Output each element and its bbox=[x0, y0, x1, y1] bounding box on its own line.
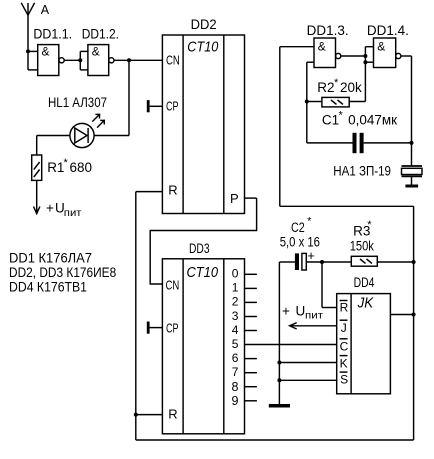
svg-text:&: & bbox=[318, 40, 326, 54]
svg-text:7: 7 bbox=[232, 365, 239, 379]
gate DD1.2 bbox=[88, 44, 114, 75]
svg-text:1: 1 bbox=[232, 281, 239, 295]
wire DD1.4 output down to piezo bbox=[401, 56, 412, 166]
svg-text:DD1.4.: DD1.4. bbox=[367, 23, 409, 38]
label C1* 0,047мк bbox=[322, 110, 397, 128]
node junction R3 right bbox=[412, 260, 416, 264]
wire DD1.4 input tie to R2 bbox=[349, 47, 373, 102]
svg-text:+ U: + U bbox=[46, 200, 65, 215]
svg-text:J: J bbox=[341, 321, 347, 335]
svg-text:R: R bbox=[168, 407, 177, 422]
svg-text:C1: C1 bbox=[322, 113, 339, 128]
wire DD1.3 output to DD1.4 bbox=[341, 55, 366, 57]
svg-text:CT10: CT10 bbox=[187, 39, 218, 55]
svg-text:JK: JK bbox=[357, 296, 375, 312]
node junction to LED branch bbox=[127, 58, 131, 62]
svg-text:U: U bbox=[296, 304, 306, 319]
svg-text:8: 8 bbox=[232, 380, 239, 394]
svg-text:C2: C2 bbox=[291, 220, 305, 235]
svg-text:DD2: DD2 bbox=[191, 17, 217, 32]
svg-text:K: K bbox=[340, 356, 348, 370]
svg-text:6: 6 bbox=[232, 351, 239, 365]
svg-text:HL1 АЛ307: HL1 АЛ307 bbox=[48, 95, 107, 110]
label C2* 5,0 x 16 bbox=[280, 215, 320, 249]
pin C of DD4 bbox=[340, 339, 349, 354]
svg-text:+: + bbox=[282, 304, 290, 319]
wire DD1.3 lower input feedback bbox=[307, 62, 314, 143]
wire common to DD4.S bbox=[279, 379, 337, 381]
gate DD1.4 bbox=[374, 38, 401, 68]
resistor R2 bbox=[322, 97, 349, 107]
node junction DD3.R bbox=[134, 413, 138, 417]
piezo sounder HA1 bbox=[402, 166, 423, 188]
wire DD2.P to DD3.CN bbox=[150, 198, 256, 284]
svg-text:CN: CN bbox=[166, 54, 180, 68]
gate DD1.1 bbox=[38, 44, 64, 75]
svg-text:+: + bbox=[307, 248, 315, 263]
wire junction down to LED bbox=[94, 60, 129, 135]
svg-text:4: 4 bbox=[232, 323, 239, 337]
svg-text:*: * bbox=[367, 219, 372, 231]
svg-text:НА1 ЗП-19: НА1 ЗП-19 bbox=[333, 164, 391, 179]
resistor R1 bbox=[32, 155, 42, 180]
antenna bbox=[21, 3, 34, 70]
svg-text:C: C bbox=[340, 339, 349, 353]
svg-text:*: * bbox=[64, 157, 69, 169]
svg-text:0: 0 bbox=[232, 267, 239, 281]
wire C1 left bbox=[307, 142, 353, 144]
pin CP of DD3 with clock marker bbox=[147, 321, 179, 335]
wire R2 left to feedback node bbox=[307, 101, 322, 103]
svg-text:R: R bbox=[340, 301, 349, 315]
pin J of DD4 bbox=[340, 320, 348, 335]
label R2* 20k bbox=[317, 77, 362, 95]
LED HL1 bbox=[70, 114, 105, 148]
svg-text:CT10: CT10 bbox=[187, 265, 219, 281]
svg-text:*: * bbox=[339, 110, 344, 122]
svg-text:&: & bbox=[92, 44, 100, 58]
pin P of DD2 bbox=[230, 191, 257, 206]
wire +U supply arrow to DD4.J bbox=[290, 323, 337, 329]
svg-text:пит: пит bbox=[64, 208, 82, 219]
pin CP of DD2 with clock marker bbox=[147, 99, 179, 113]
node junction DD1.4 tie bottom bbox=[363, 60, 367, 64]
pin S of DD4 bbox=[340, 372, 349, 386]
svg-text:R2: R2 bbox=[317, 80, 334, 95]
wire C2 node to DD4.R bbox=[322, 262, 337, 308]
node junction DD1.2 input tie bbox=[78, 58, 82, 62]
wire R1 to +U supply arrow bbox=[34, 180, 40, 213]
wire output stubs 0-4,6-9 of DD3 bbox=[245, 274, 257, 401]
wire C2 right to R3 bbox=[306, 261, 351, 263]
wire DD3.R stub bbox=[136, 414, 163, 416]
svg-text:0,047мк: 0,047мк bbox=[348, 113, 397, 128]
node junction DD1.4 tie top bbox=[363, 54, 367, 58]
counter DD2 bbox=[162, 35, 244, 214]
wire C1 right bbox=[364, 142, 412, 144]
svg-text:DD1.1.: DD1.1. bbox=[33, 27, 72, 42]
svg-text:R: R bbox=[168, 183, 177, 198]
label + Uпит right bbox=[282, 304, 323, 322]
node junction DD1.1 input bbox=[26, 49, 30, 53]
svg-text:20k: 20k bbox=[340, 80, 362, 95]
svg-text:CN: CN bbox=[166, 278, 180, 292]
wire R3 right bbox=[377, 261, 413, 263]
svg-text:*: * bbox=[307, 215, 312, 227]
wire DD1.1 output to DD1.2 bbox=[64, 59, 80, 61]
svg-text:R1: R1 bbox=[47, 160, 64, 175]
svg-text:DD1.3.: DD1.3. bbox=[307, 23, 349, 38]
pin K of DD4 bbox=[340, 356, 348, 371]
label parts list bbox=[9, 250, 116, 295]
counter DD3 bbox=[162, 259, 244, 434]
svg-text:P: P bbox=[230, 191, 239, 206]
wire DD1.2 input tie bbox=[80, 51, 88, 70]
capacitor C1 bbox=[353, 133, 364, 153]
svg-text:150k: 150k bbox=[350, 239, 374, 254]
label + Uпит left bbox=[46, 200, 82, 219]
resistor R3 bbox=[351, 256, 377, 266]
wire LED to R1 bbox=[37, 136, 70, 156]
pin R of DD2 bbox=[136, 183, 178, 198]
wire common to DD4.K bbox=[279, 362, 337, 364]
flip-flop DD4 bbox=[337, 294, 391, 394]
node junction S row bbox=[277, 378, 281, 382]
pin R of DD4 bbox=[340, 301, 349, 315]
node junction C1 right bbox=[410, 141, 414, 145]
gate DD1.3 bbox=[314, 38, 341, 68]
wire DD1.2 output to DD2.CN bbox=[114, 59, 162, 61]
node junction C2 plus bbox=[320, 260, 324, 264]
svg-text:DD4 К176ТВ1: DD4 К176ТВ1 bbox=[9, 279, 87, 295]
svg-text:*: * bbox=[334, 77, 339, 89]
svg-text:2: 2 bbox=[232, 295, 239, 309]
svg-text:5,0 x 16: 5,0 x 16 bbox=[280, 234, 320, 249]
svg-text:DD3: DD3 bbox=[189, 241, 210, 256]
node junction R2 left bbox=[305, 100, 309, 104]
svg-text:S: S bbox=[340, 373, 348, 387]
svg-text:CP: CP bbox=[166, 99, 179, 113]
svg-text:DD4: DD4 bbox=[354, 275, 375, 290]
svg-text:&: & bbox=[377, 40, 385, 54]
svg-text:9: 9 bbox=[232, 394, 239, 408]
wire reset net: DD2.R down, bottom bus, up right side bbox=[136, 47, 414, 440]
svg-text:A: A bbox=[41, 3, 50, 17]
wire DD4 output to right bus bbox=[390, 314, 413, 316]
node junction DD4 output bbox=[412, 313, 416, 317]
svg-text:3: 3 bbox=[232, 309, 239, 323]
ground bar bbox=[269, 404, 290, 408]
wire C2 left down to common bbox=[279, 262, 295, 404]
node junction K row bbox=[277, 361, 281, 365]
label R3* 150k bbox=[350, 219, 374, 254]
wire antenna to DD1.1 inputs bbox=[28, 51, 38, 70]
svg-text:680: 680 bbox=[70, 160, 93, 175]
pins 0-9 of DD3 bbox=[232, 267, 239, 408]
svg-text:DD1.2.: DD1.2. bbox=[82, 27, 119, 42]
svg-text:5: 5 bbox=[232, 337, 239, 351]
svg-text:пит: пит bbox=[305, 311, 323, 322]
capacitor C2 electrolytic bbox=[295, 253, 306, 270]
wire output 5 of DD3 to DD4.C bbox=[245, 344, 338, 346]
svg-text:CP: CP bbox=[166, 321, 179, 335]
svg-text:&: & bbox=[42, 44, 50, 58]
